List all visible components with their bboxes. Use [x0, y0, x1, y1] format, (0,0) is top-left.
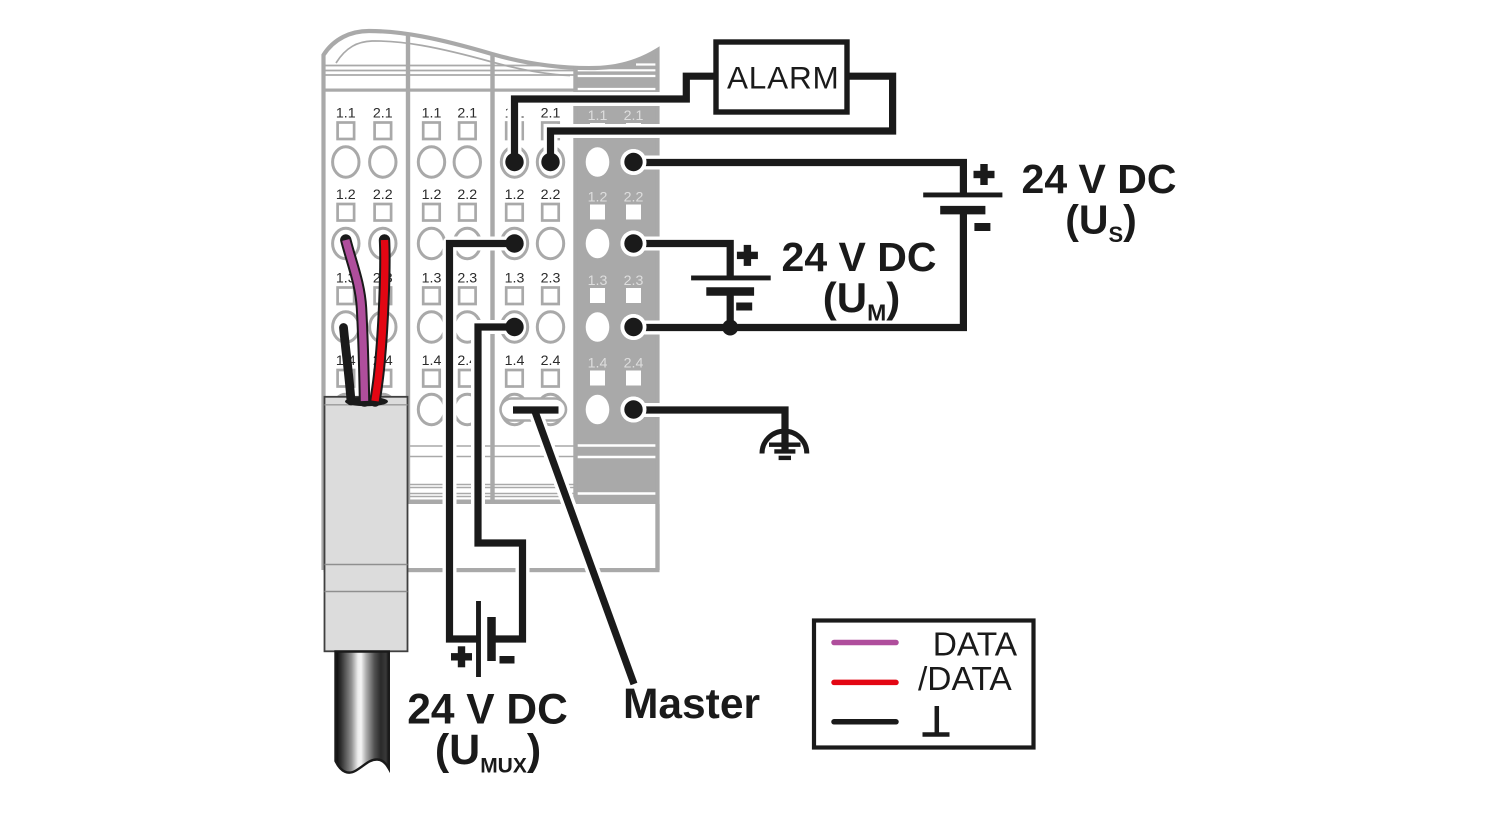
terminal 2.2 (column 4) test square	[626, 205, 641, 220]
wire connection dot col4 at 633.5,409.5	[621, 397, 647, 423]
module lower housing	[655, 504, 659, 570]
terminal 1.1 (column 3) wire opening	[501, 147, 527, 177]
svg-text:2.1: 2.1	[541, 106, 561, 122]
legend /DATA line (red)	[834, 680, 896, 686]
ground wire (black) from terminal 1.3 col1 into connector	[344, 328, 352, 402]
terminal 2.2 (column 2) wire opening	[454, 228, 480, 258]
terminal 2.4 (column 1) test square	[375, 370, 392, 387]
wire: terminal 1.2 col3 to battery Umux plus	[450, 244, 515, 640]
terminal 2.1 (column 1) wire opening	[370, 147, 396, 177]
dark module white ridge lines	[576, 65, 656, 90]
terminal 1.1 (column 2) test square	[423, 123, 440, 140]
battery Umux long plate (+)	[476, 601, 481, 677]
svg-text:2.1: 2.1	[373, 106, 393, 122]
wire connection dot col4 at 633.5,162	[621, 149, 647, 175]
svg-text:2.3: 2.3	[624, 273, 644, 289]
terminal 1.3 (column 3) wire opening	[501, 312, 527, 342]
battery Um short plate (-)	[706, 287, 754, 296]
terminal 1.2 (column 2) wire opening	[418, 228, 444, 258]
terminal 1.2 (column 2) test square	[423, 204, 440, 221]
ground (earth) symbol	[762, 431, 807, 458]
svg-text:(US): (US)	[1065, 197, 1137, 248]
alarm contact box	[716, 42, 847, 112]
terminal 1.2 (column 3) test square	[506, 204, 523, 221]
module column divider 3/4	[573, 66, 577, 502]
wire connection dot col4 at 633.5,327	[621, 314, 647, 340]
terminal 1.4 (column 4) wire opening	[586, 395, 610, 425]
jumper bridge terminal 1.4-2.4 (column 3)	[501, 399, 567, 421]
svg-text:Master: Master	[623, 681, 760, 728]
terminal 2.2 (column 2) test square	[459, 204, 476, 221]
wire: terminal 2.2 col4 to battery Um plus	[634, 244, 731, 276]
battery Um minus sign	[736, 303, 752, 311]
cable below connector	[336, 652, 389, 773]
battery Um long plate (+)	[691, 275, 771, 280]
terminal 2.1 (column 2) wire opening	[454, 147, 480, 177]
wire: terminal 1.3 col3 to battery Umux minus	[478, 327, 523, 639]
battery Us minus sign	[974, 223, 990, 231]
terminal 2.2 (column 3) wire opening	[537, 228, 563, 258]
wire connection dot col3 at 514.5,243.5	[505, 234, 523, 252]
battery Um plus sign	[744, 245, 751, 266]
svg-text:1.3: 1.3	[588, 273, 608, 289]
terminal 1.1 (column 1) test square	[338, 123, 355, 140]
module column divider 2/3	[490, 53, 494, 502]
wire connection dot col4 at 633.5,243.5	[621, 231, 647, 257]
terminal 2.4 (column 4) wire opening	[621, 397, 647, 423]
svg-text:1.2: 1.2	[505, 187, 525, 203]
cable connector housing	[325, 397, 408, 652]
wire: terminal 1.1 col3 to ALARM left	[515, 76, 716, 162]
terminal 1.2 (column 4) wire opening	[586, 229, 610, 259]
svg-text:1.1: 1.1	[422, 106, 442, 122]
connector section line 1	[325, 564, 408, 566]
svg-text:1.4: 1.4	[588, 356, 608, 372]
terminal 1.3 (column 2) test square	[423, 288, 440, 305]
terminal 2.2 (column 3) test square	[542, 204, 559, 221]
wire connection dot col3 at 550.5,162	[541, 153, 559, 171]
terminal 1.4 (column 2) wire opening	[418, 394, 444, 424]
svg-text:ALARM: ALARM	[727, 60, 840, 96]
terminal 2.4 (column 1) wire opening	[370, 394, 396, 424]
connector cable entry hole	[345, 397, 388, 407]
svg-text:2.4: 2.4	[624, 356, 644, 372]
terminal 1.3 (column 2) wire opening	[418, 312, 444, 342]
terminal 1.2 (column 1) wire opening	[333, 228, 359, 258]
terminal 1.3 (column 4) test square	[590, 288, 605, 303]
wire: master lead from jumper bridge	[535, 412, 634, 685]
terminal 2.1 (column 1) test square	[375, 123, 392, 140]
DATA wire (violet) from terminal 1.2 col1 into connector	[346, 240, 365, 401]
terminal 1.3 (column 4) wire opening	[586, 312, 610, 342]
svg-text:2.1: 2.1	[457, 106, 477, 122]
battery Us short plate (-)	[940, 206, 985, 215]
svg-text:(UMUX): (UMUX)	[435, 726, 541, 778]
legend box	[814, 621, 1034, 748]
wire: terminal 2.1 col4 to battery Us plus	[634, 163, 964, 193]
terminal 1.1 (column 4) wire opening	[586, 147, 610, 177]
legend DATA line (violet)	[834, 640, 896, 646]
terminal 2.1 (column 3) test square	[542, 123, 559, 140]
wire: battery Us minus to bottom rail and terminal 2.3 col4	[634, 214, 964, 327]
jumper bridge bar	[513, 406, 559, 413]
module column divider 1/2	[406, 34, 410, 502]
terminal 2.2 (column 4) wire opening	[621, 231, 647, 257]
terminal 1.4 (column 4) test square	[590, 371, 605, 386]
wire: terminal 2.4 col4 to ground	[634, 410, 786, 446]
terminal 2.2 (column 1) test square	[375, 204, 392, 221]
module bottom edge	[324, 568, 660, 572]
module outline (wavy top, left edge)	[324, 31, 658, 570]
junction node on Us minus rail	[722, 320, 738, 336]
svg-text:24 V DC: 24 V DC	[1022, 156, 1177, 202]
terminal 2.2 (column 1) wire opening	[370, 228, 396, 258]
terminal 1.4 (column 1) wire opening	[333, 394, 359, 424]
terminal 2.4 (column 3) wire opening	[537, 394, 563, 424]
terminal 1.4 (column 2) test square	[423, 370, 440, 387]
svg-text:1.4: 1.4	[422, 353, 442, 369]
svg-text:2.3: 2.3	[541, 271, 561, 287]
svg-text:2.1: 2.1	[624, 108, 644, 124]
terminal 1.1 (column 4) test square	[590, 123, 605, 138]
terminal 1.1 (column 1) wire opening	[333, 147, 359, 177]
svg-text:2.4: 2.4	[541, 353, 561, 369]
terminal 2.3 (column 4) wire opening	[621, 314, 647, 340]
module top band line	[324, 89, 576, 92]
svg-text:1.2: 1.2	[588, 190, 608, 206]
svg-text:2.2: 2.2	[541, 187, 561, 203]
terminal 1.1 (column 3) test square	[506, 123, 523, 140]
wire connection dot col3 at 514.5,327	[505, 318, 523, 336]
terminal 1.2 (column 3) wire opening	[501, 228, 527, 258]
svg-text:/DATA: /DATA	[918, 661, 1012, 698]
terminal 2.1 (column 4) wire opening	[621, 149, 647, 175]
svg-text:2.2: 2.2	[624, 190, 644, 206]
svg-text:24 V DC: 24 V DC	[407, 687, 568, 734]
battery Us long plate (+)	[923, 192, 1002, 197]
terminal 1.3 (column 3) test square	[506, 288, 523, 305]
terminal 1.2 (column 1) test square	[338, 204, 355, 221]
legend ground line (black)	[834, 719, 896, 725]
module section band	[324, 500, 658, 505]
battery Umux minus sign	[500, 656, 515, 664]
svg-text:1.4: 1.4	[505, 353, 525, 369]
module lower detail lines	[324, 446, 576, 497]
dark module lower white lines	[576, 446, 656, 494]
terminal 1.3 (column 1) wire opening	[333, 312, 359, 342]
svg-text:1.1: 1.1	[336, 106, 356, 122]
module top ridge echo line	[336, 41, 570, 76]
terminal 1.4 (column 1) test square	[338, 370, 355, 387]
connector top bevel line	[325, 404, 408, 406]
terminal 2.1 (column 2) test square	[459, 123, 476, 140]
terminal 1.2 (column 4) test square	[590, 205, 605, 220]
terminal 1.1 (column 2) wire opening	[418, 147, 444, 177]
/DATA wire (red) from terminal 2.2 col1 into connector	[375, 240, 385, 401]
terminal 2.4 (column 2) test square	[459, 370, 476, 387]
battery Umux short plate (-)	[487, 617, 496, 661]
svg-text:1.2: 1.2	[336, 187, 356, 203]
terminal 2.4 (column 4) test square	[626, 371, 641, 386]
svg-text:1.3: 1.3	[422, 271, 442, 287]
terminal 2.4 (column 3) test square	[542, 370, 559, 387]
connector section line 2	[325, 591, 408, 593]
svg-text:1.1: 1.1	[588, 108, 608, 124]
terminal 2.1 (column 4) test square	[626, 123, 641, 138]
terminal 2.3 (column 1) wire opening	[370, 312, 396, 342]
terminal module body (dark highlighted slice, column 4)	[576, 20, 658, 504]
terminal 2.3 (column 4) test square	[626, 288, 641, 303]
terminal 2.3 (column 2) wire opening	[454, 312, 480, 342]
terminal 2.3 (column 3) test square	[542, 288, 559, 305]
svg-text:2.3: 2.3	[457, 271, 477, 287]
wire: battery Um minus to junction on bottom rail	[723, 296, 737, 328]
wire connection dot col3 at 514.5,162	[505, 153, 523, 171]
wire: terminal 2.1 col3 to ALARM right	[551, 76, 893, 162]
svg-text:2.2: 2.2	[457, 187, 477, 203]
svg-text:2.2: 2.2	[373, 187, 393, 203]
terminal 2.3 (column 1) test square	[375, 288, 392, 305]
terminal 1.3 (column 1) test square	[338, 288, 355, 305]
terminal 2.3 (column 3) wire opening	[537, 312, 563, 342]
module top ridge lines	[324, 66, 576, 76]
terminal 2.4 (column 2) wire opening	[454, 394, 480, 424]
svg-text:DATA: DATA	[933, 627, 1018, 664]
battery Umux plus sign	[458, 646, 465, 667]
terminal 2.3 (column 2) test square	[459, 288, 476, 305]
battery Us plus sign	[980, 164, 987, 185]
terminal 1.4 (column 3) test square	[506, 370, 523, 387]
svg-text:(UM): (UM)	[823, 274, 901, 326]
terminal 1.4 (column 3) wire opening	[501, 394, 527, 424]
svg-text:1.2: 1.2	[422, 187, 442, 203]
svg-text:1.3: 1.3	[505, 271, 525, 287]
legend ground symbol	[923, 706, 950, 735]
terminal 2.1 (column 3) wire opening	[537, 147, 563, 177]
